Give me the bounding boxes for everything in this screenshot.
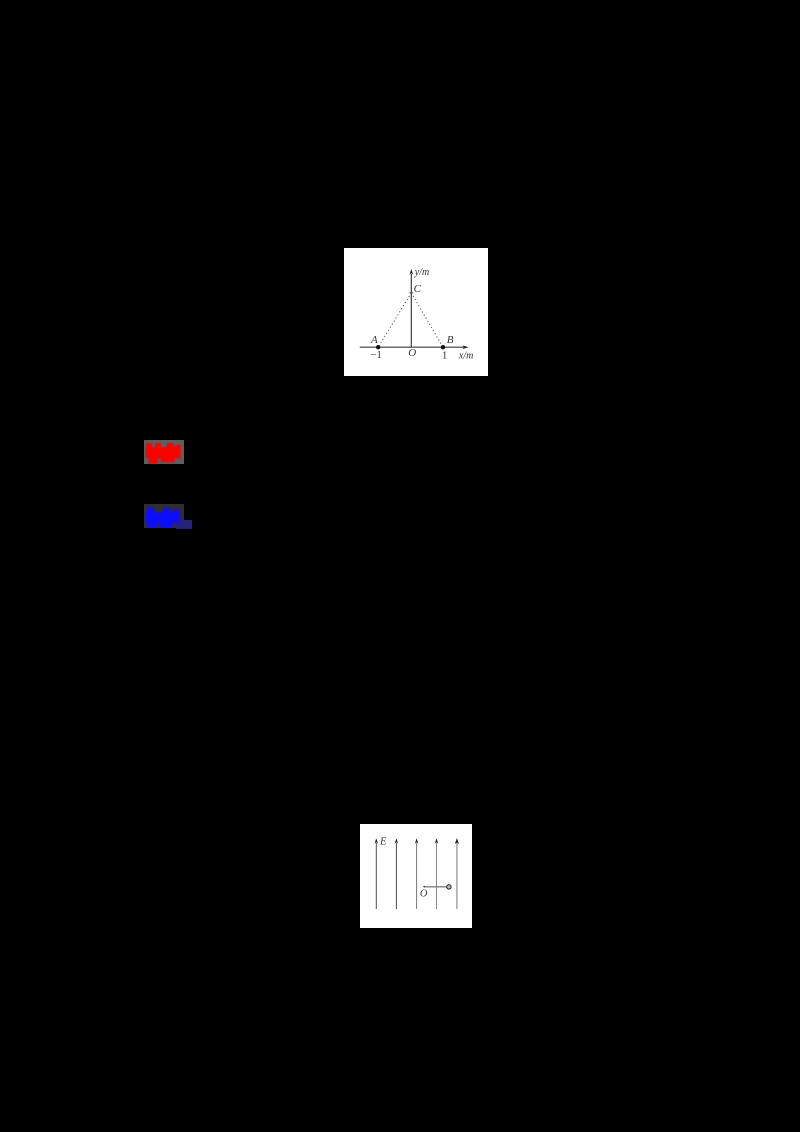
svg-text:x/m: x/m — [458, 351, 473, 362]
dashed line C to B — [411, 293, 443, 347]
red answer tag (blurred bold CJK text on gray box) — [144, 440, 184, 464]
charged ball — [447, 885, 451, 889]
blue analysis tag (blurred bold CJK text on dark box) — [144, 504, 184, 528]
svg-text:C: C — [414, 283, 422, 295]
navy block — [176, 520, 192, 529]
svg-text:1: 1 — [442, 349, 448, 361]
y axis arrowhead — [410, 269, 414, 275]
point A dot — [376, 345, 380, 349]
svg-text:y/m: y/m — [414, 267, 429, 278]
pivot dot at O — [423, 886, 425, 888]
y axis — [410, 274, 412, 347]
figure 1: coordinate system with triangle ACB — [344, 248, 488, 376]
point B dot — [441, 345, 445, 349]
x axis — [360, 346, 465, 348]
field line 5 — [456, 843, 458, 909]
svg-text:−1: −1 — [370, 349, 382, 361]
tick at C — [410, 292, 414, 294]
field line 3 — [416, 843, 418, 909]
rod from O to ball — [424, 886, 447, 888]
figure 2: uniform field E with pivoted ball — [360, 824, 472, 928]
x axis arrowhead — [463, 345, 469, 349]
svg-text:E: E — [379, 837, 387, 848]
field line 1 — [375, 843, 377, 909]
dashed line C to A — [378, 293, 411, 347]
svg-text:O: O — [420, 889, 428, 900]
svg-text:A: A — [370, 334, 378, 346]
field line 2 — [395, 843, 397, 909]
svg-text:B: B — [447, 334, 454, 346]
field line 4 — [436, 843, 438, 909]
svg-text:O: O — [408, 347, 416, 359]
